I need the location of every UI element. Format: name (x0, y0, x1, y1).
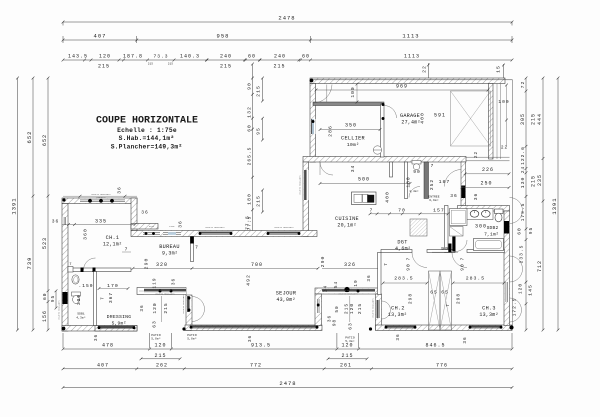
svg-text:652: 652 (26, 131, 33, 144)
dim line bottom 407 262 772 261 776 (63, 368, 512, 370)
svg-text:360: 360 (83, 228, 89, 240)
wall bureau south / placard (137, 288, 186, 295)
wall corridor south segment 2 (427, 250, 455, 253)
wall connector left wing to sejour (131, 224, 158, 230)
window sejour north east (267, 231, 300, 236)
pilaster ch1 west (68, 267, 73, 273)
wall sdb2 west (445, 206, 449, 253)
svg-text:320: 320 (156, 262, 168, 268)
svg-text:20,1m²: 20,1m² (337, 223, 356, 229)
svg-text:326: 326 (344, 262, 356, 268)
svg-text:652: 652 (42, 134, 48, 146)
door sdb2 + leaf (452, 237, 455, 252)
svg-text:400: 400 (420, 112, 426, 124)
window ch3 east (504, 282, 509, 302)
corner dot garage top-left (310, 79, 314, 83)
svg-text:.150: .150 (78, 283, 93, 289)
svg-text:262: 262 (156, 362, 168, 368)
svg-text:4,6m²: 4,6m² (395, 246, 411, 252)
window ch2 west (376, 300, 381, 318)
dim 22 near garage top (427, 63, 429, 78)
kitchen island (352, 192, 377, 205)
svg-text:298: 298 (456, 293, 462, 304)
wall sdb1/dressing divider (94, 272, 97, 326)
dim line total height 1391 (right) (557, 78, 559, 330)
window ch2 south (385, 325, 416, 327)
svg-text:DRESSING: DRESSING (107, 314, 132, 320)
svg-text:958: 958 (217, 33, 230, 40)
svg-text:70: 70 (398, 208, 406, 214)
wall sejour south (185, 325, 322, 331)
svg-text:CH.2: CH.2 (391, 306, 405, 312)
svg-text:367: 367 (108, 292, 114, 303)
svg-text:100: 100 (350, 86, 356, 97)
window sejour south (190, 325, 318, 327)
svg-text:2478: 2478 (279, 380, 296, 387)
svg-text:7: 7 (125, 247, 129, 253)
window kitchen south slider (322, 288, 375, 293)
svg-text:7: 7 (384, 262, 389, 266)
window left wall upper (62, 217, 67, 225)
svg-text:95: 95 (50, 295, 56, 303)
porch french doors (192, 297, 205, 310)
svg-text:305: 305 (520, 113, 526, 125)
corner dot bottom-right (509, 325, 513, 329)
svg-text:5,0m²: 5,0m² (187, 338, 197, 341)
svg-text:215: 215 (163, 302, 169, 313)
door garage->cellier left (314, 85, 333, 104)
svg-text:VOLETS ROULANTS: VOLETS ROULANTS (155, 293, 175, 296)
svg-text:34: 34 (324, 285, 329, 292)
svg-text:261: 261 (340, 362, 352, 368)
svg-text:15: 15 (496, 65, 502, 73)
svg-text:DGT: DGT (397, 240, 407, 246)
svg-text:SEJOUR: SEJOUR (276, 291, 296, 297)
dim line top details 143.5 120 187.8 73.3 140.3 240 60 240 60 1113 (63, 59, 512, 61)
svg-text:335: 335 (95, 219, 107, 225)
svg-text:60: 60 (42, 293, 48, 301)
svg-text:187.8: 187.8 (123, 54, 143, 60)
window ch3 south (469, 325, 502, 327)
svg-text:298: 298 (408, 293, 414, 304)
svg-text:9,3m²: 9,3m² (162, 251, 178, 257)
svg-text:157: 157 (433, 208, 445, 214)
door sdb2 east black (504, 221, 509, 234)
svg-text:120: 120 (341, 343, 353, 349)
svg-text:54: 54 (334, 281, 339, 288)
svg-text:180: 180 (406, 176, 412, 187)
window porch north / placard front (144, 288, 186, 294)
svg-text:120: 120 (99, 54, 111, 60)
sdb2 shower (450, 209, 468, 226)
svg-text:SDB1: SDB1 (77, 313, 85, 316)
extension lines from top dims (62, 36, 64, 43)
svg-text:140.3: 140.3 (180, 54, 200, 60)
svg-text:7: 7 (195, 245, 199, 251)
svg-text:5,0m²: 5,0m² (151, 338, 161, 341)
front door wall strip (461, 162, 466, 206)
svg-text:VOLETS ROULANTS: VOLETS ROULANTS (274, 226, 294, 229)
window sejour east (315, 299, 321, 313)
svg-text:100: 100 (498, 99, 509, 105)
door posts sdb1 (81, 268, 84, 273)
svg-text:913.5: 913.5 (251, 343, 271, 349)
wall dressing south (95, 326, 137, 332)
door ch2 west semicircle (382, 301, 391, 319)
svg-text:CH.1: CH.1 (106, 235, 120, 241)
dim line 407 / 958 / 1113 (top) (63, 39, 512, 41)
svg-text:7: 7 (461, 257, 466, 261)
svg-text:22: 22 (474, 151, 479, 158)
svg-text:7: 7 (101, 296, 106, 300)
sdb1 toilet (72, 292, 81, 296)
svg-text:215: 215 (168, 63, 174, 66)
svg-text:60: 60 (248, 54, 256, 60)
svg-text:5,9m²: 5,9m² (112, 321, 127, 327)
corner dot patio right (369, 327, 372, 330)
svg-text:36: 36 (172, 278, 177, 285)
svg-text:VOLETS ROULANTS: VOLETS ROULANTS (372, 298, 375, 318)
corner dot sejour south-west (182, 327, 185, 330)
garage cross box (451, 91, 491, 146)
svg-text:300: 300 (475, 224, 487, 230)
dim chain right inner 72 305 122.6 24 130 179.5 ... (525, 78, 527, 330)
svg-text:95: 95 (528, 227, 534, 235)
dim 36 335 above ch1 (62, 224, 135, 226)
svg-text:24: 24 (521, 166, 526, 173)
wall ch1 south (68, 268, 131, 272)
svg-text:60: 60 (517, 227, 523, 235)
svg-text:700: 700 (251, 262, 263, 268)
dim line total width 2478 (bottom) (63, 387, 512, 389)
svg-text:Echelle : 1:75e: Echelle : 1:75e (117, 127, 177, 134)
svg-text:36: 36 (473, 193, 479, 201)
wall wc west (405, 162, 408, 199)
wall kitchen west (303, 162, 309, 237)
svg-text:145: 145 (528, 284, 534, 296)
svg-text:PERGOLA: PERGOLA (96, 196, 106, 199)
svg-text:215: 215 (98, 64, 110, 70)
svg-text:290: 290 (320, 256, 326, 268)
svg-text:120: 120 (518, 283, 524, 294)
sdb2 vanity with two sinks (467, 209, 494, 220)
svg-text:CELLIER: CELLIER (341, 136, 365, 142)
sub dims 215 under top detail line (83, 59, 86, 62)
dim line total width 2478 (top) (63, 21, 512, 23)
svg-text:36: 36 (52, 219, 60, 225)
svg-text:90: 90 (441, 246, 449, 252)
exterior door arcs right wall 2 (510, 256, 523, 269)
svg-text:60: 60 (302, 54, 310, 60)
wall garage/cellier bottom (303, 157, 466, 163)
svg-text:34: 34 (350, 165, 356, 173)
svg-text:120: 120 (154, 343, 166, 349)
sdb2 bathtub (474, 239, 504, 251)
svg-text:27,4m²: 27,4m² (401, 120, 420, 126)
svg-text:215: 215 (220, 64, 232, 70)
dim line 652 523 60 156 (left) (47, 78, 49, 330)
cellier water heater circle (373, 146, 381, 154)
wall cellier east (381, 104, 385, 157)
svg-text:VOLETS ROULANTS: VOLETS ROULANTS (182, 294, 185, 314)
svg-text:215: 215 (273, 64, 285, 70)
svg-text:CH.3: CH.3 (482, 306, 496, 312)
window garage west (310, 119, 315, 134)
svg-text:500: 500 (358, 177, 370, 183)
svg-text:772: 772 (250, 362, 262, 368)
svg-text:215: 215 (344, 303, 350, 314)
svg-text:215: 215 (148, 63, 154, 66)
svg-text:S.Plancher=149,3m²: S.Plancher=149,3m² (111, 144, 183, 151)
svg-text:FIXE: FIXE (149, 225, 155, 228)
wall garage right (489, 84, 494, 160)
window fixe 1 sejour north (143, 231, 160, 236)
svg-text:1391: 1391 (551, 197, 558, 214)
svg-text:300: 300 (76, 294, 82, 305)
placards ch2 ch3 cross (429, 271, 441, 330)
svg-text:43,0m²: 43,0m² (276, 297, 295, 303)
svg-text:7: 7 (407, 257, 412, 261)
svg-text:90: 90 (406, 263, 412, 271)
sub dims 215 bottom (141, 358, 180, 360)
svg-text:252: 252 (429, 179, 435, 190)
dgt closet hatch (410, 219, 427, 236)
wall left wing west (62, 204, 68, 332)
svg-text:523: 523 (42, 237, 48, 249)
svg-text:77.5: 77.5 (246, 215, 251, 230)
svg-text:36: 36 (463, 336, 468, 343)
svg-text:130: 130 (520, 177, 526, 189)
svg-text:215: 215 (154, 353, 166, 359)
svg-text:400: 400 (385, 191, 391, 203)
svg-text:478: 478 (102, 343, 114, 349)
svg-text:63: 63 (152, 320, 158, 328)
svg-text:180: 180 (247, 193, 253, 205)
svg-text:407: 407 (97, 362, 109, 368)
svg-text:846.5: 846.5 (425, 343, 445, 349)
svg-text:22: 22 (501, 146, 508, 151)
svg-text:FIXE: FIXE (169, 225, 175, 228)
svg-text:119: 119 (153, 278, 158, 289)
window dressing south (98, 326, 135, 328)
svg-text:286: 286 (328, 125, 334, 137)
internal vdim chain 90 132 60 265.5 180 77.5 (252, 64, 254, 234)
svg-text:65: 65 (430, 290, 438, 296)
door corridor->ch2 (412, 253, 427, 268)
svg-text:COUPE HORIZONTALE: COUPE HORIZONTALE (96, 116, 198, 127)
dim line 652 / 739 (left) (32, 78, 34, 330)
svg-text:22: 22 (421, 65, 427, 73)
wall left wing south (62, 326, 137, 332)
svg-text:226: 226 (482, 167, 494, 173)
svg-text:1391: 1391 (11, 197, 18, 214)
wall ch2 west (376, 294, 382, 330)
wall left wing east upper (131, 198, 137, 231)
svg-text:19: 19 (354, 279, 359, 286)
door wc (409, 187, 420, 198)
dim 320 700 line (133, 267, 318, 269)
svg-text:265.5: 265.5 (247, 147, 253, 166)
wall porch east / sejour west at porch (186, 295, 192, 331)
svg-text:591: 591 (434, 113, 446, 119)
svg-text:36: 36 (140, 304, 145, 311)
terrace edge line right (512, 80, 514, 328)
svg-text:90: 90 (247, 82, 253, 90)
svg-text:170: 170 (107, 283, 119, 289)
dim line total height 1391 (left) (17, 78, 19, 330)
svg-text:712: 712 (537, 260, 543, 272)
svg-text:90: 90 (460, 263, 466, 271)
wall corridor south segment 3 (467, 250, 505, 253)
svg-text:143.5: 143.5 (68, 54, 88, 60)
door left wall entry black (63, 292, 68, 304)
dim line bottom details 478 120 913.5 120 846.5 (63, 348, 512, 350)
svg-text:215: 215 (341, 353, 353, 359)
svg-text:156: 156 (42, 310, 48, 322)
window kitchen west (303, 170, 308, 200)
svg-text:63: 63 (348, 322, 354, 330)
svg-text:7: 7 (69, 263, 71, 267)
svg-text:739: 739 (26, 257, 33, 270)
door sdb1->ch1 (84, 258, 96, 270)
svg-text:36: 36 (367, 274, 372, 281)
sdb2 shelf (450, 227, 464, 237)
svg-text:1113: 1113 (402, 33, 419, 40)
window ch1 north (80, 198, 125, 203)
svg-text:VOLETS ROULANTS: VOLETS ROULANTS (205, 226, 225, 229)
svg-text:95: 95 (256, 127, 262, 135)
front door + leaf (444, 170, 461, 187)
internal vdim 215 95 215 (262, 78, 264, 101)
svg-text:122.6: 122.6 (520, 146, 526, 165)
svg-text:240: 240 (220, 54, 232, 60)
sdb2 toilet (495, 209, 504, 214)
dim 95 short chain (left) (55, 291, 57, 308)
svg-text:250: 250 (480, 181, 492, 187)
svg-text:90: 90 (413, 169, 421, 175)
svg-text:10m²: 10m² (347, 142, 359, 148)
wall sejour east at patio (315, 294, 322, 326)
svg-text:GARAGE: GARAGE (400, 113, 420, 119)
svg-text:13,3m²: 13,3m² (388, 312, 407, 318)
window porch east door (186, 296, 191, 312)
svg-text:65: 65 (441, 290, 449, 296)
window fixe 2 sejour north (163, 231, 181, 236)
svg-text:VOLETS ROULANTS: VOLETS ROULANTS (58, 300, 61, 320)
wall garage left (310, 84, 316, 163)
svg-text:7: 7 (431, 164, 435, 169)
window sejour north big (199, 231, 232, 236)
svg-text:235: 235 (537, 174, 543, 186)
svg-text:4,3m²: 4,3m² (76, 317, 86, 320)
wall corridor south segment 1 (381, 250, 412, 253)
svg-text:132: 132 (247, 106, 253, 118)
svg-text:215: 215 (256, 85, 262, 97)
wc toilet (hall) (412, 161, 421, 165)
svg-text:5,3m²: 5,3m² (345, 340, 355, 343)
svg-text:187: 187 (439, 179, 451, 185)
svg-text:98: 98 (333, 319, 338, 326)
svg-text:36: 36 (248, 335, 253, 342)
wall wc east (dark) (424, 162, 429, 199)
wall wc south stub (390, 162, 393, 177)
svg-text:969: 969 (396, 84, 408, 90)
svg-text:12,1m²: 12,1m² (103, 242, 122, 248)
corner dot left wing bottom-left (62, 327, 66, 331)
svg-text:CUISINE: CUISINE (335, 216, 359, 222)
wall mid-section top (sejour north) (131, 231, 317, 237)
svg-text:2478: 2478 (278, 15, 295, 22)
exterior door arcs right wall 1 (510, 198, 523, 211)
svg-text:36: 36 (450, 193, 458, 199)
door cellier east (384, 106, 397, 119)
svg-text:6,9m²: 6,9m² (429, 199, 439, 202)
svg-text:36: 36 (117, 186, 123, 194)
svg-text:VOLETS ROULANTS: VOLETS ROULANTS (299, 175, 302, 195)
svg-text:492: 492 (246, 274, 252, 286)
svg-text:283.5: 283.5 (394, 276, 413, 282)
svg-text:7: 7 (370, 209, 374, 214)
svg-text:BUREAU: BUREAU (159, 244, 179, 250)
svg-text:444: 444 (537, 113, 543, 125)
svg-text:72: 72 (520, 81, 526, 89)
svg-text:36: 36 (94, 334, 99, 341)
svg-text:36: 36 (178, 220, 184, 228)
svg-text:13,3m²: 13,3m² (479, 312, 498, 318)
svg-text:290: 290 (144, 258, 150, 270)
svg-text:36: 36 (396, 333, 401, 340)
wall left wing north (62, 198, 137, 204)
dim 15 top right corner (503, 64, 505, 80)
wall right wing north (sdb2) (458, 206, 510, 212)
svg-text:215: 215 (256, 195, 262, 207)
wall right wing east (504, 211, 510, 326)
svg-text:215: 215 (531, 175, 537, 187)
svg-text:179.5: 179.5 (520, 203, 526, 222)
svg-text:215: 215 (357, 303, 363, 314)
door corridor->ch3 (452, 253, 467, 268)
svg-text:73.3: 73.3 (153, 54, 168, 60)
corner dot left wing top-left (62, 198, 65, 201)
sdb1 washbasin (72, 275, 79, 284)
wall kitchen south (315, 288, 378, 294)
svg-text:50: 50 (335, 305, 340, 312)
exterior door arcs right wall 3 (510, 298, 522, 310)
svg-text:1113: 1113 (404, 54, 420, 60)
svg-text:240: 240 (274, 54, 286, 60)
extension lines bottom (62, 333, 64, 348)
dim line 7 70 157 (370, 213, 448, 215)
svg-text:283.5: 283.5 (466, 276, 485, 282)
svg-text:VOLETS ROULANTS: VOLETS ROULANTS (338, 293, 358, 296)
svg-text:S.Hab.=144,1m²: S.Hab.=144,1m² (119, 135, 175, 142)
wall cellier north (313, 102, 384, 106)
svg-text:36: 36 (141, 210, 149, 216)
wall bureau east (191, 237, 194, 262)
dim chain right 444 235 712 (542, 78, 544, 330)
svg-text:215: 215 (531, 113, 537, 125)
svg-text:7,1m²: 7,1m² (484, 232, 499, 238)
wall garage top (310, 78, 505, 84)
svg-text:7: 7 (446, 303, 451, 307)
door kitchen north (320, 162, 333, 175)
svg-text:SDB2: SDB2 (487, 225, 499, 231)
svg-text:350: 350 (345, 123, 357, 129)
svg-text:407: 407 (94, 33, 107, 40)
svg-text:776: 776 (436, 362, 448, 368)
svg-text:60: 60 (247, 124, 253, 132)
svg-text:120: 120 (152, 302, 158, 313)
